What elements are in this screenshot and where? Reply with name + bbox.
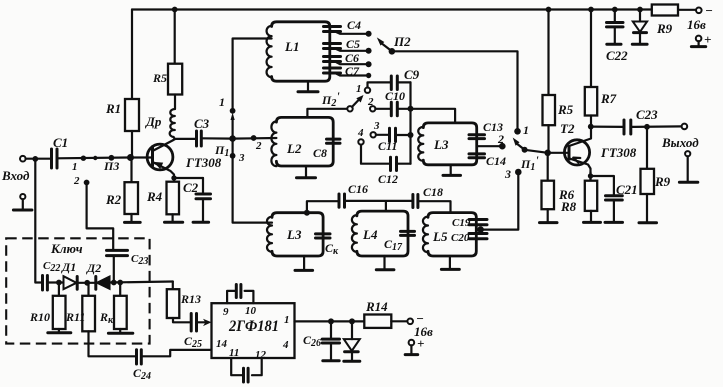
switch P1 pin2 [251, 135, 262, 152]
wire L1 to ground [307, 81, 309, 91]
wire emitter node to C21 [591, 176, 614, 196]
ground L3b [295, 269, 313, 272]
wire R5 to choke [174, 95, 176, 110]
svg-text:1: 1 [284, 314, 290, 326]
wire to R9 lower [646, 127, 648, 169]
ground D3 [632, 43, 647, 46]
node collector junction [175, 138, 197, 140]
capacitor C3 [194, 116, 210, 146]
wire L2 to ground [305, 166, 307, 177]
resistor R9 top horizontal [652, 5, 678, 37]
inductor L2 [271, 117, 333, 166]
svg-text:C12: C12 [378, 172, 398, 186]
svg-text:2: 2 [497, 132, 504, 146]
svg-text:2: 2 [73, 175, 80, 187]
svg-text:4: 4 [282, 339, 289, 351]
capacitor C11 [376, 128, 411, 153]
svg-text:П3: П3 [103, 159, 119, 173]
switch P1p pin1 [514, 123, 529, 137]
wire rail to terminal after R9 [678, 9, 696, 11]
resistor R5 right [543, 95, 574, 125]
wire C16 to L4 tap and C18 [345, 201, 413, 211]
inductor L5 [423, 213, 476, 256]
svg-text:C8: C8 [313, 146, 327, 160]
wire C1 to base node with switch P3 [57, 156, 131, 159]
wire R1 branch from rail [131, 10, 133, 100]
node collector output [588, 124, 594, 130]
node rail to C22 [612, 7, 618, 13]
wire base node to R6 [547, 153, 549, 181]
switch P1p pin3 [504, 167, 522, 181]
svg-text:2ГФ181: 2ГФ181 [228, 318, 279, 335]
resistor R6 [542, 181, 575, 210]
svg-text:R13: R13 [180, 292, 201, 306]
svg-text:C18: C18 [423, 185, 443, 199]
capacitor C23 key [107, 250, 149, 282]
svg-text:+: + [704, 32, 711, 47]
wire P3 pin2 down to key box [87, 183, 114, 251]
wire R4 to ground [172, 214, 174, 221]
diode D3 top right [633, 10, 647, 44]
wire rail to R5r [547, 10, 549, 96]
wire emitter to R8 [589, 172, 591, 181]
terminal +16v bottom [405, 336, 424, 355]
svg-text:П2: П2 [393, 34, 411, 49]
svg-text:C1: C1 [53, 135, 68, 150]
svg-text:+: + [417, 336, 424, 351]
svg-text:3: 3 [373, 120, 380, 132]
node rail to R7 [588, 7, 594, 13]
ground R10 [48, 331, 71, 334]
node bus C10 [408, 106, 414, 112]
svg-text:ГТ308: ГТ308 [600, 145, 637, 160]
svg-text:1: 1 [356, 83, 362, 95]
capacitor C10 [375, 89, 410, 116]
svg-text:1: 1 [72, 161, 78, 173]
wire C3 to switch P1 [201, 137, 232, 140]
node input branch to key [32, 156, 38, 162]
ground R2 [125, 221, 141, 224]
inductor Dr choke [145, 109, 175, 137]
svg-text:1: 1 [523, 123, 529, 137]
svg-text:C21: C21 [616, 182, 638, 197]
wire P1 pin3 down to L3 bottom [233, 139, 272, 223]
wire L2 tap to P2p common [307, 109, 347, 118]
terminal +16v top right [691, 32, 711, 47]
switch P2 arm [377, 34, 411, 55]
node emitter C21 branch [588, 173, 593, 178]
wire R1 to base node [131, 131, 133, 158]
switch P2p pin4 [357, 127, 364, 145]
resistor R2 [105, 182, 138, 214]
wire bus to L3 top [411, 109, 456, 123]
wire R8 to ground [590, 211, 592, 222]
wire input to C1 [26, 158, 51, 160]
capacitor C14 [469, 154, 506, 168]
wire emitter node to C2 [174, 177, 203, 179]
svg-text:C4: C4 [347, 18, 361, 32]
wire top supply rail [132, 8, 652, 10]
svg-text:R5: R5 [152, 71, 167, 85]
ground L3m [443, 174, 461, 177]
node C26 [328, 318, 334, 324]
ground R8 [584, 221, 601, 224]
svg-text:C5: C5 [346, 37, 360, 51]
switch P2p common [321, 89, 364, 112]
capacitor C8 on L2 [313, 139, 340, 160]
svg-text:L1: L1 [284, 39, 299, 54]
capacitor C25 [184, 314, 202, 351]
wire choke to collector node [173, 137, 175, 139]
resistor R10 [29, 283, 66, 333]
svg-text:L3: L3 [286, 227, 302, 242]
capacitor top loop pins 9 10 [227, 285, 253, 304]
inductor L1 [267, 22, 330, 81]
resistor R7 [585, 87, 617, 116]
svg-text:C20: C20 [451, 232, 470, 244]
switch P1 pin3 [230, 152, 245, 164]
svg-text:ГТ308: ГТ308 [185, 155, 222, 170]
ground L2 [297, 176, 316, 179]
svg-text:R7: R7 [600, 91, 617, 106]
svg-text:R8: R8 [560, 199, 577, 214]
wire R11 to C24 [89, 331, 137, 356]
wire C25 to IC input [197, 321, 209, 323]
capacitor C2 [183, 178, 211, 222]
capacitor bottom loop pins 11 12 [231, 358, 262, 382]
resistor R8 [560, 181, 597, 214]
capacitor C9 [368, 67, 420, 90]
switch P2p pin3 [371, 120, 381, 138]
capacitor C23 [624, 107, 658, 134]
node R11 junction [84, 280, 90, 286]
svg-text:10: 10 [245, 305, 257, 317]
ground R12 [108, 332, 132, 335]
resistor R14 [364, 299, 391, 328]
capacitor C6 [324, 51, 367, 65]
svg-text:R10: R10 [29, 310, 50, 324]
ground antenna symbol below input [13, 194, 32, 210]
wire P1 pin1 up to L1 [233, 39, 272, 111]
wire C18 to L5 [418, 201, 451, 212]
node output to R9 lower [644, 124, 650, 130]
capacitor C24 [133, 350, 151, 382]
svg-text:C6: C6 [345, 51, 359, 65]
resistor R11 [65, 283, 95, 332]
capacitor Ck on L3 bottom [316, 234, 340, 257]
node D4 [349, 318, 355, 324]
wire C23 to output terminal [631, 125, 682, 128]
key dashed box [6, 238, 149, 343]
switch P1 pin1 [219, 95, 236, 114]
capacitor C18 [413, 185, 443, 208]
resistor R13 [167, 282, 201, 323]
capacitor C1 [52, 135, 69, 168]
svg-text:C9: C9 [404, 67, 420, 82]
terminal input circle [20, 156, 26, 162]
resistor R5 [152, 64, 182, 95]
switch P2 contacts [366, 31, 372, 78]
svg-text:14: 14 [216, 338, 228, 350]
svg-text:R2: R2 [105, 192, 122, 207]
wire D1 to D2 [77, 282, 96, 284]
node R10 junction [56, 280, 62, 286]
node R12 junction [117, 280, 123, 286]
capacitor C21 [606, 182, 638, 222]
capacitor C5 [324, 37, 367, 51]
svg-text:Выход: Выход [661, 135, 699, 150]
wire R7 to collector node [590, 116, 592, 127]
wire P1 to L2 [233, 137, 277, 140]
inductor L4 [352, 211, 408, 256]
svg-text:3: 3 [504, 167, 511, 181]
wire base node to Q1 [131, 156, 152, 158]
svg-text:C23: C23 [131, 253, 148, 267]
svg-text:9: 9 [223, 306, 229, 318]
terminal -16v bottom [407, 311, 433, 339]
node emitter C2 branch [171, 175, 176, 180]
ground L5 [441, 268, 459, 271]
wire rail to R5 [174, 10, 176, 64]
svg-text:C10: C10 [385, 89, 405, 103]
capacitor C16 [339, 182, 368, 207]
node rail-R5 junction [172, 7, 178, 13]
svg-text:R9: R9 [656, 21, 673, 36]
svg-text:Др: Др [145, 114, 162, 129]
svg-text:Д2: Д2 [86, 261, 101, 275]
svg-text:4: 4 [357, 127, 364, 139]
capacitor C22 key [43, 260, 61, 290]
wire R14 to terminal [391, 320, 407, 322]
transistor T2 GT308 [548, 121, 637, 181]
svg-text:−: − [705, 3, 713, 18]
node rail to diode [637, 7, 643, 13]
svg-text:L3: L3 [433, 137, 449, 152]
capacitor C22 top [606, 10, 628, 64]
ground C22 [607, 43, 621, 46]
wire IC output [295, 320, 365, 322]
node C23k junction [111, 280, 117, 286]
wire R2 to ground [130, 214, 132, 222]
node T2 base junction [544, 150, 551, 157]
svg-text:Ключ: Ключ [50, 241, 83, 256]
ground R6 [540, 221, 558, 224]
svg-text:2: 2 [255, 140, 262, 152]
svg-text:C16: C16 [348, 182, 368, 196]
svg-text:R9: R9 [654, 174, 671, 189]
terminal -16v top right [687, 3, 713, 32]
transistor Q1 GT308 [147, 139, 229, 182]
capacitor C7 [324, 64, 367, 78]
IC input arrow [203, 319, 212, 326]
svg-text:C3: C3 [194, 116, 210, 131]
wire C22k to D1 [47, 281, 63, 283]
wire R9 lower to ground [646, 194, 648, 222]
resistor R12 [99, 283, 127, 333]
inductor L3 middle [418, 123, 476, 165]
ground L4 [376, 268, 394, 271]
wire rail to R7 [590, 10, 592, 88]
switch P2p pin1 [356, 83, 370, 95]
wire D2 to R13 [110, 282, 173, 283]
diode D1 [61, 260, 77, 289]
node bus C11 [408, 132, 414, 138]
resistor R9 lower [641, 169, 671, 194]
switch P1p arm [513, 138, 540, 174]
switch P3 pin 2 [73, 175, 90, 187]
svg-text:L2: L2 [286, 141, 302, 156]
ground R4 [165, 221, 183, 224]
wire L3m to ground [450, 165, 452, 175]
capacitor C12 [361, 145, 411, 186]
svg-text:L4: L4 [362, 227, 378, 242]
svg-text:C19: C19 [452, 217, 471, 229]
wire collector to C23 [591, 125, 624, 128]
svg-text:C23: C23 [636, 107, 658, 122]
svg-text:R5: R5 [557, 102, 574, 117]
wire L4 to ground [383, 256, 385, 269]
capacitor C17 on L4 [384, 231, 415, 253]
svg-text:C11: C11 [378, 139, 397, 153]
wire L5 to ground [449, 256, 451, 269]
wire P1p pin3 down to C19 C20 tap [481, 172, 519, 230]
inductor L3 bottom [267, 213, 323, 256]
wire C13 C14 tap to P1p pin2 [477, 145, 503, 147]
svg-text:C22: C22 [43, 260, 60, 274]
svg-text:L5: L5 [432, 229, 448, 244]
wire base node to R2 [130, 158, 132, 183]
wire C24 to IC pin14 [141, 350, 211, 356]
capacitor C20 on L5 [451, 232, 487, 244]
capacitor C4 [324, 18, 367, 34]
wire P1p arm to T2 base node [525, 150, 548, 153]
switch P1p pin2 [497, 132, 506, 150]
switch P2p pin2 [367, 96, 375, 112]
capacitor C26 [303, 321, 340, 359]
svg-text:Вход: Вход [1, 168, 30, 183]
svg-text:C14: C14 [486, 154, 506, 168]
wire padder bus [409, 82, 411, 163]
svg-text:C22: C22 [606, 48, 628, 63]
terminal output [661, 124, 699, 150]
svg-text:R4: R4 [146, 189, 163, 204]
ground D4 [344, 360, 360, 363]
wire P2 to P1p pin1 [392, 51, 518, 131]
diode D4 [344, 321, 360, 360]
node rail to R5r [546, 7, 552, 13]
svg-text:3: 3 [238, 152, 245, 164]
switch P1 common and arm [229, 113, 236, 142]
ground L1 [298, 90, 318, 93]
ground C2 [193, 221, 209, 224]
wire L3b tap to C16 [307, 201, 339, 213]
wire L3b to ground [303, 256, 305, 270]
svg-text:T2: T2 [560, 121, 575, 136]
svg-text:R14: R14 [365, 299, 388, 314]
ground C26 [323, 359, 339, 362]
ground C21 [605, 221, 623, 224]
svg-text:C7: C7 [345, 64, 360, 78]
svg-text:16в: 16в [687, 17, 706, 32]
diode D2 [86, 261, 110, 289]
node C19 C20 tap [477, 226, 484, 233]
capacitor C19 on L5 [452, 217, 487, 229]
svg-text:2: 2 [367, 96, 374, 108]
svg-text:C2: C2 [183, 180, 199, 195]
wire R6 to ground [547, 209, 549, 222]
wire R5r to base node [547, 125, 549, 153]
capacitor C13 [469, 120, 503, 139]
svg-text:1: 1 [219, 95, 225, 109]
resistor R1 [105, 99, 139, 131]
wire input branch down to key [35, 159, 42, 283]
svg-text:R1: R1 [105, 101, 121, 116]
resistor R4 [146, 182, 179, 215]
svg-text:Д1: Д1 [61, 260, 76, 274]
switch P3 contacts [72, 155, 119, 173]
svg-text:R11: R11 [65, 310, 85, 324]
ground R9 lower [639, 221, 657, 224]
ground antenna below output [679, 151, 697, 182]
node L3b top tap [304, 210, 310, 216]
IC 2GF181 box [212, 303, 295, 358]
node base junction Q1 [127, 154, 134, 161]
